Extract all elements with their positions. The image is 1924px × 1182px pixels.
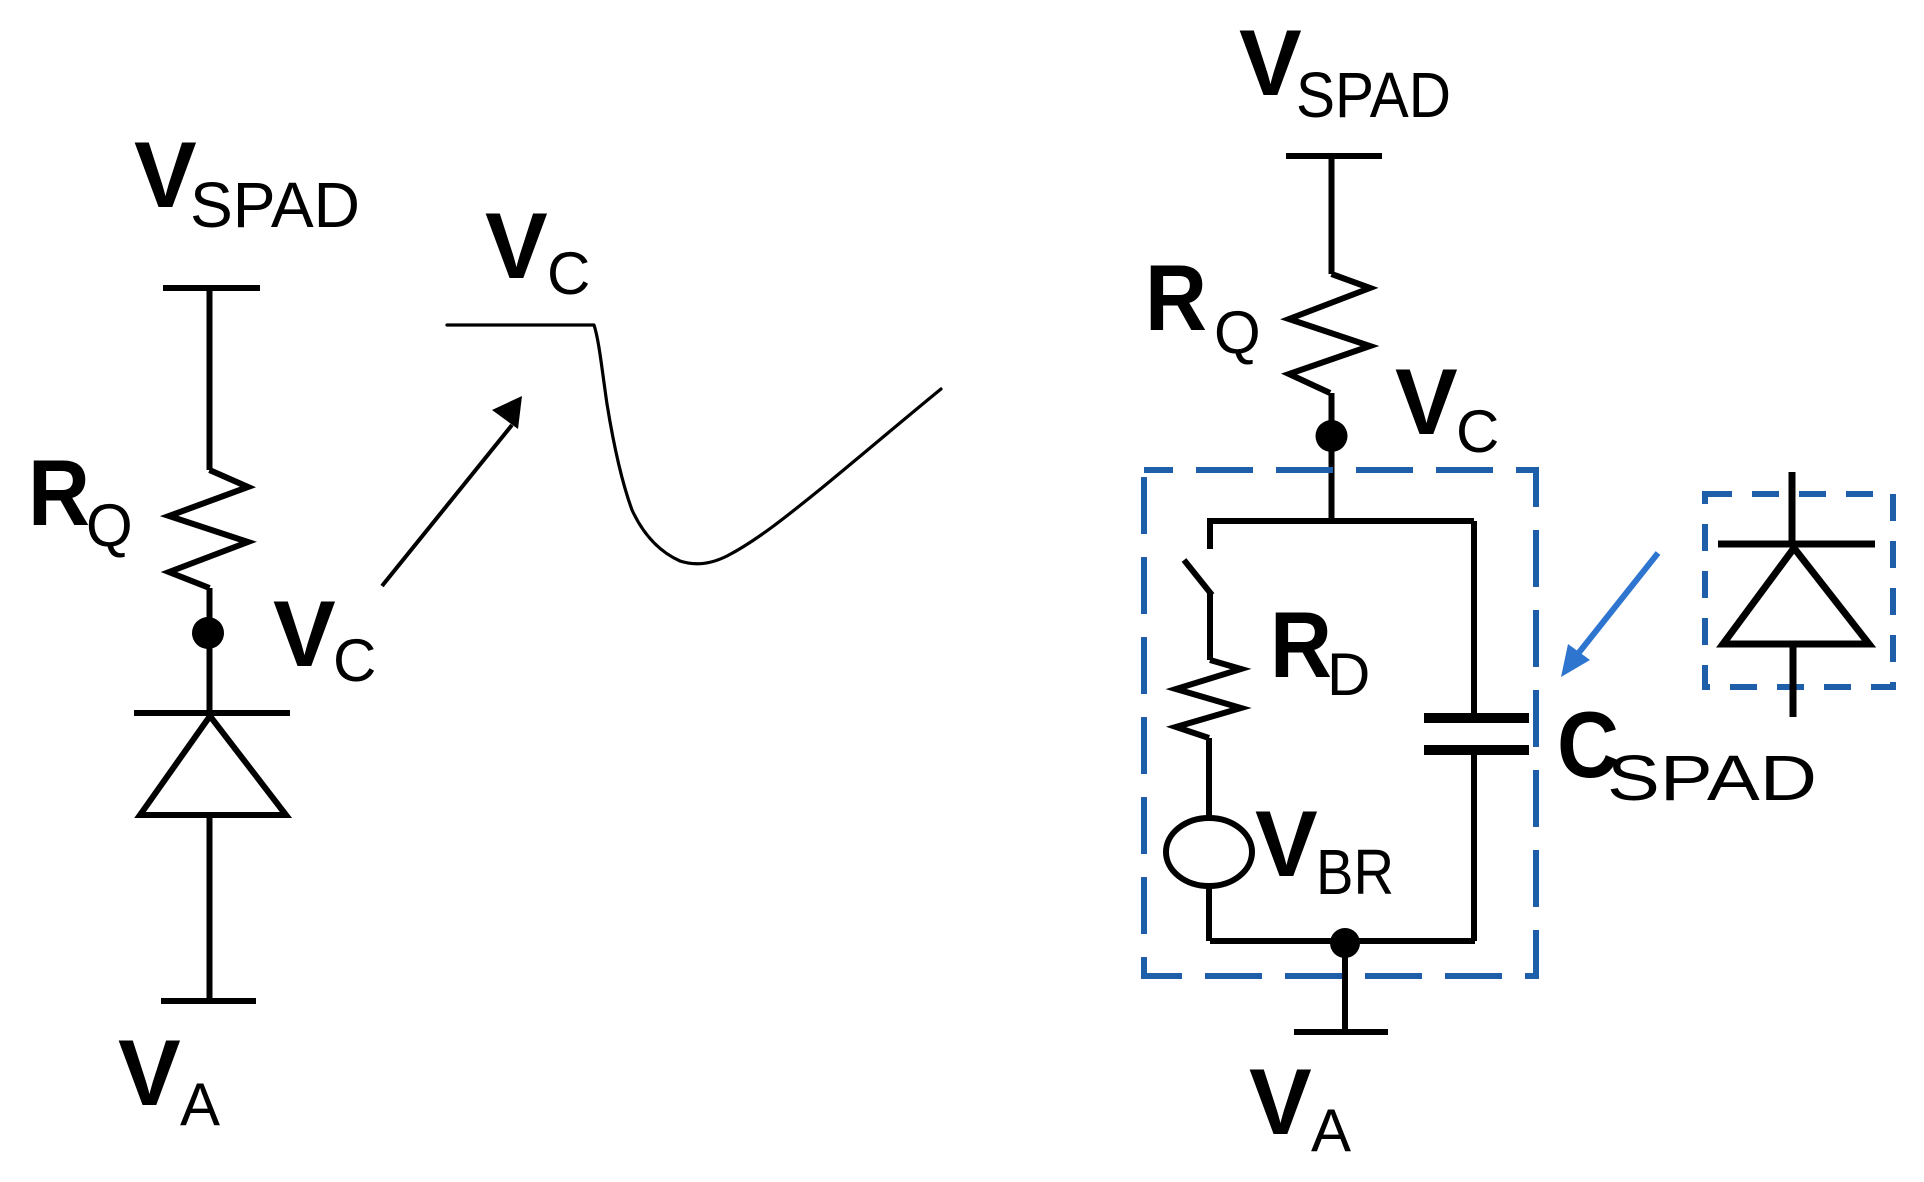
svg-text:R: R xyxy=(1270,592,1332,697)
wire VSPAD bar to resistor RQ (right) xyxy=(1329,156,1335,274)
SPAD diode cathode bar xyxy=(1718,541,1875,548)
resistor RQ label (left) xyxy=(28,440,133,559)
node VA label (left) xyxy=(118,1020,220,1138)
SPAD diode triangle xyxy=(1723,548,1869,644)
svg-text:SPAD: SPAD xyxy=(190,169,360,241)
svg-text:SPAD: SPAD xyxy=(1607,742,1817,814)
capacitor CSPAD label xyxy=(1557,692,1817,814)
voltage source VBR circle xyxy=(1166,818,1252,886)
svg-text:V: V xyxy=(485,193,548,298)
svg-text:V: V xyxy=(1249,1049,1312,1154)
svg-text:V: V xyxy=(118,1020,181,1125)
wire source VBR to bottom rail xyxy=(1206,886,1212,941)
svg-text:A: A xyxy=(180,1071,220,1138)
resistor RD label xyxy=(1270,592,1370,708)
svg-text:Q: Q xyxy=(86,492,133,559)
wire resistor RQ to node VC (right) xyxy=(1329,393,1335,521)
wire resistor RD to source VBR xyxy=(1206,738,1212,818)
diode D1 cathode bar (left) xyxy=(134,710,290,716)
source VBR label xyxy=(1255,791,1394,908)
svg-text:V: V xyxy=(1239,10,1302,115)
switch arm (open switch) xyxy=(1184,560,1212,595)
wire diode to VA terminal (left) xyxy=(207,815,213,1001)
SPAD symbol dashed box xyxy=(1705,494,1893,687)
svg-text:D: D xyxy=(1327,641,1370,708)
VSPAD supply terminal bar (left) xyxy=(163,285,260,291)
diode D1 triangle (left SPAD) xyxy=(140,716,286,815)
wire bottom node to VA terminal (right) xyxy=(1342,943,1348,1032)
capacitor CSPAD bottom plate xyxy=(1424,745,1529,755)
capacitor branch upper wire xyxy=(1471,521,1477,714)
SPAD diode top lead xyxy=(1789,472,1796,547)
svg-text:V: V xyxy=(273,581,336,686)
svg-text:V: V xyxy=(1395,349,1458,454)
node VC junction dot (left) xyxy=(192,617,224,649)
node VC label (right) xyxy=(1395,349,1499,465)
VA terminal bar (left) xyxy=(161,998,256,1004)
VSPAD supply terminal bar (right) xyxy=(1286,153,1382,159)
node VC label (left) xyxy=(273,581,376,694)
svg-text:C: C xyxy=(1456,398,1499,465)
wire switch to resistor RD xyxy=(1207,592,1213,660)
node VC junction dot (right) xyxy=(1316,420,1348,452)
VA terminal bar (right) xyxy=(1294,1029,1388,1035)
blue annotation arrow to SPAD symbol xyxy=(1561,553,1658,677)
svg-text:Q: Q xyxy=(1214,299,1261,366)
VC waveform label (middle) xyxy=(485,193,590,307)
SPAD equivalent model dashed box xyxy=(1144,470,1536,976)
VC waveform curve xyxy=(447,325,941,564)
svg-text:V: V xyxy=(1255,791,1318,896)
resistor RQ (right) xyxy=(1289,274,1370,393)
wire resistor RQ to diode (left) xyxy=(207,588,213,713)
svg-text:C: C xyxy=(333,627,376,694)
svg-text:V: V xyxy=(134,122,197,227)
svg-text:A: A xyxy=(1311,1097,1351,1164)
svg-text:C: C xyxy=(547,240,590,307)
svg-text:R: R xyxy=(1145,245,1207,350)
resistor RQ (left) xyxy=(169,470,248,588)
resistor RQ label (right) xyxy=(1145,245,1261,366)
capacitor CSPAD top plate xyxy=(1424,713,1529,723)
svg-text:R: R xyxy=(28,440,90,545)
wire VSPAD bar to resistor RQ (left) xyxy=(207,288,213,470)
node VSPAD label (right) xyxy=(1239,10,1451,131)
bottom node junction dot xyxy=(1330,928,1360,958)
svg-text:BR: BR xyxy=(1316,836,1394,908)
svg-text:SPAD: SPAD xyxy=(1296,59,1451,131)
node VA label (right) xyxy=(1249,1049,1351,1164)
resistor RD xyxy=(1176,660,1241,738)
bottom rail inside model box xyxy=(1210,938,1475,944)
node VSPAD label (left) xyxy=(134,122,360,241)
top rail inside model box xyxy=(1210,521,1474,549)
SPAD diode bottom lead xyxy=(1790,644,1797,717)
capacitor branch lower wire xyxy=(1471,755,1477,941)
annotation arrow to VC waveform xyxy=(382,396,522,586)
